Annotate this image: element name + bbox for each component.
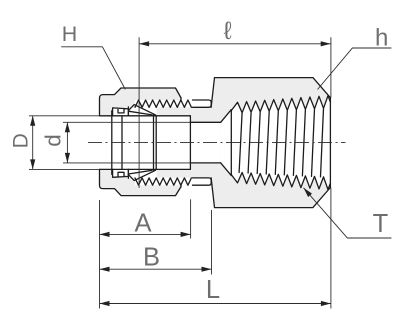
svg-text:L: L [206,276,220,304]
svg-text:D: D [10,133,33,148]
svg-text:B: B [143,244,160,272]
svg-text:ℓ: ℓ [223,17,232,45]
svg-text:h: h [375,25,388,52]
svg-text:T: T [373,210,389,238]
svg-text:A: A [134,210,151,238]
svg-text:d: d [41,134,66,147]
svg-text:H: H [62,23,78,46]
